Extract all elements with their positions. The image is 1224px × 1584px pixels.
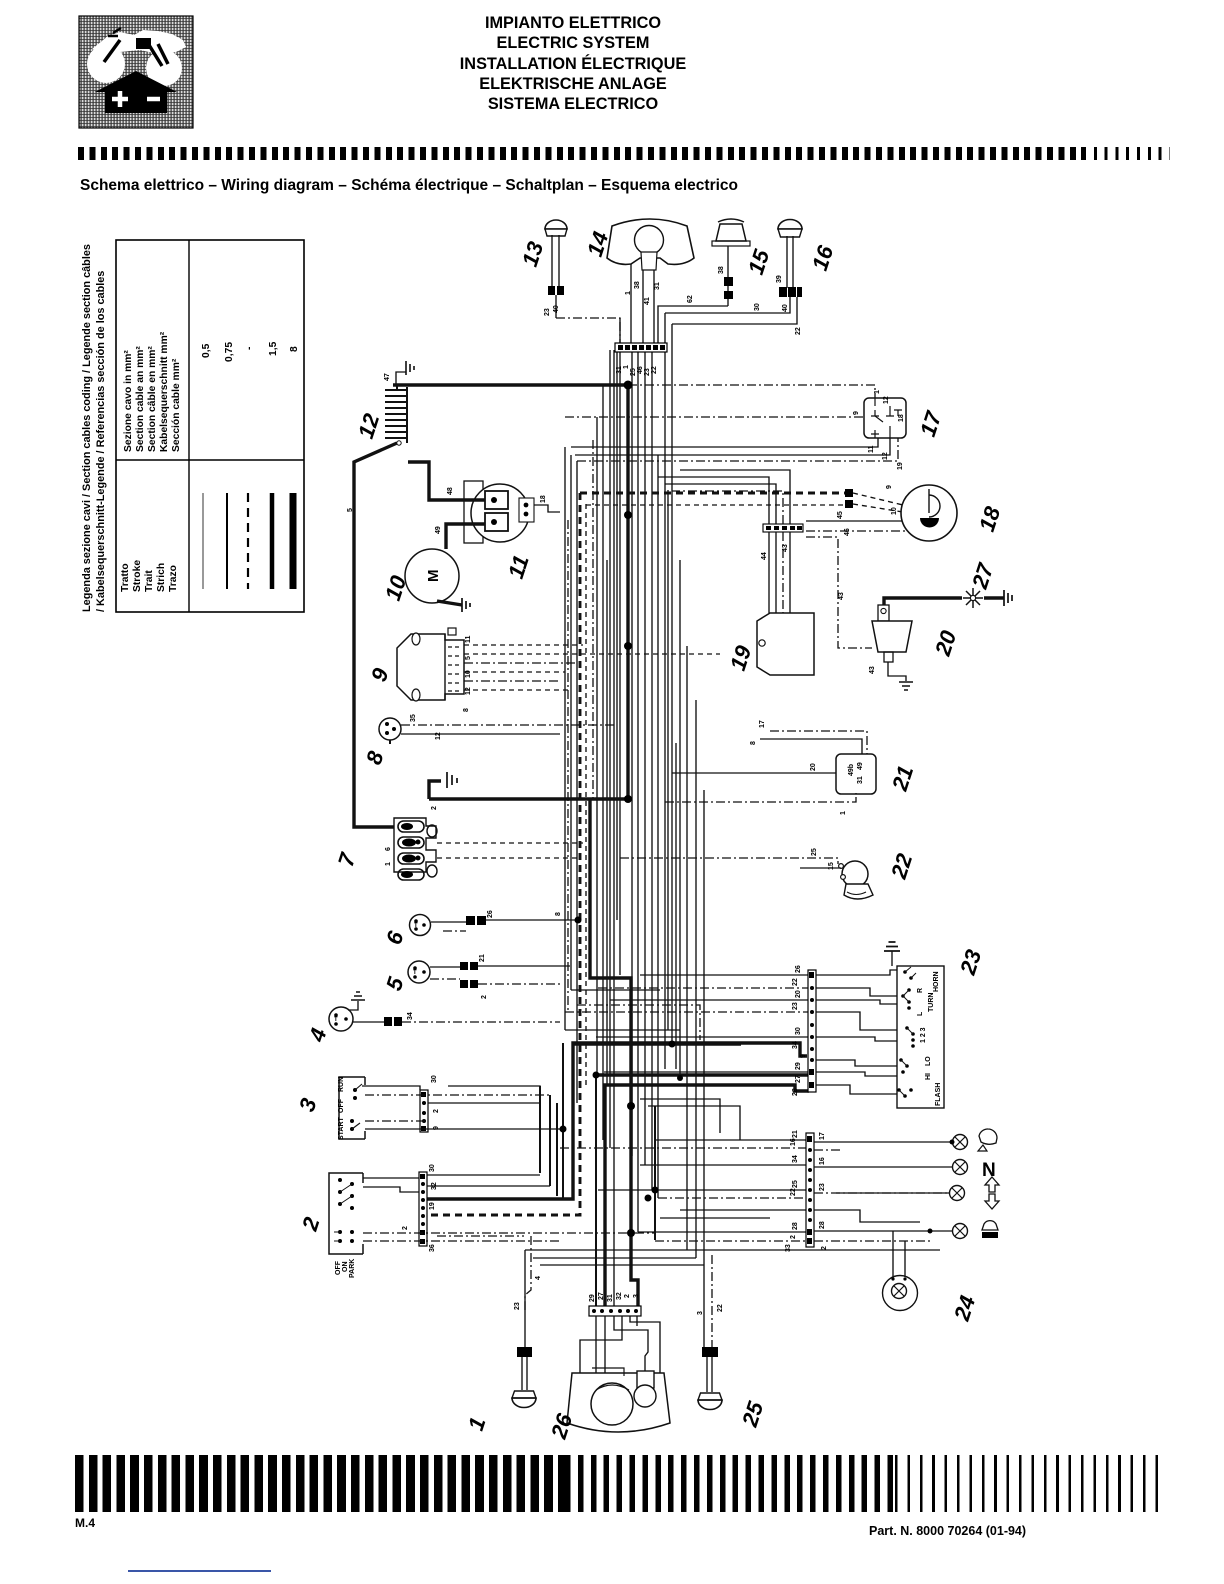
- svg-text:3: 3: [633, 1294, 640, 1298]
- wire 48 (thick): [408, 462, 485, 500]
- svg-text:T: T: [334, 1017, 338, 1023]
- footer part number: [869, 1524, 1026, 1538]
- svg-text:Trait: Trait: [144, 570, 155, 592]
- svg-text:12: 12: [883, 396, 890, 404]
- svg-text:25: 25: [737, 1398, 769, 1431]
- wire: thick branch to connector pin 34: [574, 1042, 741, 1045]
- wire: thick dashed main: [427, 493, 580, 1215]
- rear position lamp 25: [698, 1393, 722, 1410]
- svg-text:M: M: [425, 570, 442, 583]
- wires to handlebar connector: [565, 965, 809, 1096]
- wires relay 17 bottom: [571, 438, 904, 470]
- alternator 12 (coil block): [385, 385, 407, 445]
- svg-text:8: 8: [361, 747, 389, 767]
- svg-text:1 2 3: 1 2 3: [920, 1027, 927, 1043]
- wires pickup 8: [401, 714, 617, 740]
- svg-text:Legenda sezione cavi / Section: Legenda sezione cavi / Section cables co…: [81, 244, 93, 612]
- svg-text:18: 18: [898, 414, 905, 422]
- svg-text:12: 12: [435, 732, 442, 740]
- svg-text:17: 17: [915, 407, 947, 440]
- svg-text:31: 31: [857, 776, 864, 784]
- svg-text:RUN: RUN: [338, 1077, 345, 1092]
- svg-text:20: 20: [795, 990, 802, 998]
- svg-text:Section câble en mm²: Section câble en mm²: [147, 346, 158, 452]
- svg-text:28: 28: [792, 1088, 799, 1096]
- svg-text:2: 2: [402, 1226, 409, 1230]
- svg-text:4: 4: [304, 1025, 332, 1045]
- fuse box 7: [394, 818, 437, 880]
- bottom separator band: [75, 1455, 565, 1512]
- svg-text:22: 22: [795, 327, 802, 335]
- svg-text:21: 21: [887, 763, 919, 795]
- wires sender 6: [431, 910, 578, 931]
- svg-text:27: 27: [795, 1075, 802, 1083]
- svg-text:41: 41: [644, 297, 651, 305]
- CDI unit 9: [397, 628, 464, 701]
- key switch 18: [901, 485, 957, 541]
- svg-text:5: 5: [347, 508, 354, 512]
- svg-text:29: 29: [795, 1062, 802, 1070]
- svg-text:Stroke: Stroke: [132, 560, 143, 592]
- svg-text:25: 25: [630, 368, 637, 376]
- svg-text:11: 11: [868, 445, 875, 453]
- wire to relay 17 coil: [565, 416, 864, 418]
- spark plug 27: [963, 588, 983, 608]
- svg-text:TURN: TURN: [928, 993, 935, 1012]
- svg-text:2: 2: [481, 995, 488, 999]
- svg-text:23: 23: [819, 1183, 826, 1191]
- svg-text:29: 29: [589, 1294, 596, 1302]
- svg-text:Strich: Strich: [156, 563, 167, 592]
- svg-text:11: 11: [503, 552, 534, 581]
- svg-text:34: 34: [792, 1041, 799, 1049]
- nested corner returns: [565, 990, 770, 1218]
- svg-text:26: 26: [795, 965, 802, 973]
- subtitle: [80, 177, 738, 195]
- svg-text:-: -: [244, 346, 255, 350]
- svg-text:8: 8: [750, 741, 757, 745]
- svg-text:49: 49: [435, 526, 442, 534]
- svg-text:43: 43: [838, 592, 845, 600]
- svg-text:24: 24: [949, 1293, 981, 1325]
- svg-text:27: 27: [967, 559, 999, 593]
- svg-text:OFF: OFF: [335, 1260, 342, 1275]
- lamp 16 (stop bulb): [776, 220, 802, 298]
- junction dots: [560, 381, 955, 1238]
- svg-text:1: 1: [625, 291, 632, 295]
- ground above switch 23: [884, 942, 900, 966]
- svg-text:62: 62: [687, 295, 694, 303]
- svg-text:20: 20: [930, 627, 962, 660]
- svg-text:Kabelsequerschnitt mm²: Kabelsequerschnitt mm²: [159, 331, 170, 452]
- horn 22: [839, 861, 873, 899]
- wires to speedometer light: [814, 1210, 920, 1277]
- svg-text:2: 2: [790, 1235, 797, 1239]
- svg-text:48: 48: [447, 487, 454, 495]
- legend table: cable section header (rotated): [123, 331, 182, 452]
- svg-text:10: 10: [891, 507, 898, 515]
- lights switch 2: [329, 1173, 363, 1278]
- svg-text:16: 16: [790, 1138, 797, 1146]
- ground near fuse box: [429, 772, 457, 810]
- svg-text:40: 40: [553, 305, 560, 313]
- svg-text:5: 5: [381, 973, 409, 993]
- svg-text:33: 33: [785, 1244, 792, 1252]
- footer blue rule: [128, 1570, 271, 1572]
- svg-text:16: 16: [819, 1157, 826, 1165]
- svg-text:HORN: HORN: [933, 971, 940, 992]
- svg-text:45: 45: [837, 511, 844, 519]
- svg-text:Trazo: Trazo: [168, 565, 179, 592]
- svg-text:12: 12: [353, 410, 385, 442]
- svg-text:31: 31: [607, 1294, 614, 1302]
- svg-text:18: 18: [974, 503, 1006, 535]
- svg-text:PARK: PARK: [349, 1259, 356, 1278]
- svg-text:FLASH: FLASH: [935, 1083, 942, 1106]
- lamp 15 (tail bulb): [712, 219, 750, 306]
- svg-text:ON: ON: [342, 1262, 349, 1273]
- svg-text:23: 23: [514, 1302, 521, 1310]
- svg-text:30: 30: [429, 1164, 436, 1172]
- connector strip of ignition unit: [763, 524, 803, 532]
- headlight connector strip: [615, 343, 667, 376]
- svg-text:7: 7: [333, 849, 361, 870]
- svg-text:Section cable an mm²: Section cable an mm²: [135, 346, 146, 452]
- wires connector to warning lamps: [814, 1132, 953, 1250]
- svg-text:1: 1: [385, 862, 392, 866]
- svg-text:3: 3: [294, 1095, 322, 1114]
- svg-text:Sección cable mm²: Sección cable mm²: [171, 358, 182, 452]
- engine stop switch 3: [338, 1077, 365, 1140]
- legend table frame: [116, 240, 304, 612]
- svg-text:21: 21: [792, 1130, 799, 1138]
- svg-text:9: 9: [886, 485, 893, 489]
- wire: left thick run from generator to fuses: [354, 443, 397, 827]
- svg-text:OFF: OFF: [338, 1098, 345, 1113]
- svg-text:4: 4: [535, 1276, 542, 1280]
- wire: thick branch 27: [605, 1085, 809, 1306]
- wire: battery positive bus (thick): [393, 385, 628, 799]
- svg-text:28: 28: [819, 1221, 826, 1229]
- svg-text:N: N: [982, 1160, 996, 1181]
- svg-text:47: 47: [384, 373, 391, 381]
- wires ignition unit up: [658, 470, 790, 560]
- starter relay 17: [864, 396, 906, 438]
- svg-text:40: 40: [782, 304, 789, 312]
- svg-text:8: 8: [555, 912, 562, 916]
- svg-text:22: 22: [717, 1304, 724, 1312]
- svg-text:25: 25: [811, 848, 818, 856]
- warning lamp: neutral: [953, 1160, 996, 1182]
- wire to relay 17 top: [628, 385, 875, 398]
- wire: thick feed to switch 2: [427, 1043, 807, 1199]
- top separator band: [78, 147, 1083, 160]
- wire: thin dashed companion: [585, 504, 587, 1085]
- svg-text:R: R: [917, 988, 924, 993]
- warning lamp: low beam: [953, 1221, 999, 1239]
- tail lamp connector: [589, 1292, 641, 1316]
- wire trunk: lower medium verticals: [540, 1043, 655, 1306]
- svg-text:Tratto: Tratto: [120, 563, 131, 592]
- front position lamp 1: [512, 1391, 536, 1408]
- svg-text:38: 38: [634, 281, 641, 289]
- svg-text:46: 46: [637, 366, 644, 374]
- svg-text:38: 38: [718, 266, 725, 274]
- wire 49 (thick): [435, 524, 485, 549]
- svg-text:17: 17: [759, 720, 766, 728]
- wire to front position lamp 1: [514, 1236, 542, 1390]
- svg-text:23: 23: [955, 947, 987, 979]
- svg-text:44: 44: [761, 552, 768, 560]
- svg-text:17: 17: [819, 1132, 826, 1140]
- svg-text:32: 32: [616, 1292, 623, 1300]
- wires fuse box 7: [385, 843, 583, 866]
- pickup 8: [379, 718, 401, 744]
- starter motor 10: [405, 549, 470, 612]
- wire to rear position lamp 25: [697, 1255, 724, 1392]
- warning lamp: high beam: [953, 1129, 998, 1151]
- wire 16 stop: [672, 297, 797, 324]
- svg-text:L: L: [917, 1011, 924, 1016]
- legend table: section values (rotated): [201, 341, 300, 362]
- svg-text:3: 3: [697, 1311, 704, 1315]
- svg-text:19: 19: [429, 1202, 436, 1210]
- wire coil secondary to ground: [869, 662, 913, 690]
- svg-text:49: 49: [857, 762, 864, 770]
- svg-text:34: 34: [407, 1012, 414, 1020]
- wires 45 46 to key switch: [806, 511, 908, 536]
- ground at spark plug: [1004, 590, 1012, 606]
- svg-text:31: 31: [654, 282, 661, 290]
- wire 13 to connector: [556, 318, 620, 343]
- svg-text:11: 11: [465, 635, 472, 643]
- wires sender 4: [353, 1012, 560, 1026]
- ground near generator (47): [384, 361, 414, 385]
- handlebar connector strip: [808, 970, 816, 1092]
- wire 15: [658, 306, 728, 343]
- bottom harness horizontals: [437, 1236, 940, 1265]
- svg-text:6: 6: [385, 847, 392, 851]
- svg-text:START: START: [338, 1116, 345, 1140]
- svg-text:28: 28: [792, 1222, 799, 1230]
- svg-text:T: T: [413, 970, 417, 976]
- wire trunk: auxiliary dash-dot verticals: [568, 440, 676, 1085]
- wires connector to switch 23: [816, 970, 897, 1094]
- svg-text:27: 27: [598, 1292, 605, 1300]
- svg-text:1: 1: [874, 390, 881, 394]
- svg-text:22: 22: [886, 850, 918, 883]
- temperature sender 6: [410, 915, 431, 936]
- svg-text:9: 9: [800, 1054, 807, 1058]
- svg-text:LO: LO: [925, 1056, 932, 1066]
- svg-text:Sezione cavo in mm²: Sezione cavo in mm²: [123, 350, 134, 452]
- svg-text:31: 31: [616, 366, 623, 374]
- title block: [300, 13, 846, 114]
- svg-text:23: 23: [644, 368, 651, 376]
- svg-text:1,5: 1,5: [268, 341, 279, 356]
- svg-text:8: 8: [463, 708, 470, 712]
- footer page number: [75, 1516, 95, 1530]
- svg-text:HI: HI: [925, 1073, 932, 1080]
- svg-text:34: 34: [792, 1155, 799, 1163]
- svg-text:20: 20: [810, 763, 817, 771]
- svg-text:0,5: 0,5: [201, 343, 212, 358]
- headlight 14: [607, 219, 694, 270]
- wire spark to ground (thick): [984, 596, 1004, 599]
- wire 16 low: [665, 297, 790, 313]
- wires sender 5: [430, 954, 570, 999]
- legend table: line samples: [203, 493, 293, 589]
- svg-text:43: 43: [869, 666, 876, 674]
- ground near sender 4: [348, 992, 365, 1010]
- svg-text:22: 22: [651, 366, 658, 374]
- speedometer light 24: [883, 1276, 918, 1311]
- svg-text:30: 30: [795, 1027, 802, 1035]
- regulator 11: [464, 481, 560, 543]
- svg-text:21: 21: [479, 954, 486, 962]
- svg-text:2: 2: [624, 1294, 631, 1298]
- svg-text:18: 18: [540, 495, 547, 503]
- svg-text:25: 25: [792, 1180, 799, 1188]
- svg-text:35: 35: [410, 714, 417, 722]
- wires headlight 14: [625, 264, 661, 343]
- svg-text:23: 23: [544, 308, 551, 316]
- wires horn 22: [620, 848, 841, 870]
- svg-text:13: 13: [517, 239, 548, 270]
- svg-text:49b: 49b: [848, 764, 855, 776]
- svg-text:8: 8: [289, 346, 300, 352]
- svg-text:39: 39: [776, 275, 783, 283]
- svg-text:/ Kabelsequerschnitt-Legende /: / Kabelsequerschnitt-Legende / Referenci…: [95, 271, 107, 612]
- ignition coil 20: [872, 605, 912, 662]
- svg-text:22: 22: [792, 978, 799, 986]
- flasher unit 21: [836, 754, 876, 794]
- svg-text:36: 36: [429, 1244, 436, 1252]
- connector strip of switch 3: [420, 1090, 428, 1132]
- ignition electronic unit 19: [757, 532, 814, 675]
- svg-text:1: 1: [623, 365, 630, 369]
- svg-text:12: 12: [465, 687, 472, 695]
- neutral sender 5: [408, 961, 430, 983]
- wires connector to tail lamp 26: [580, 1316, 660, 1373]
- svg-text:46: 46: [844, 528, 851, 536]
- logo: textured box with motorcycle and battery-house icon: [79, 16, 193, 128]
- svg-text:23: 23: [792, 1002, 799, 1010]
- wire coil HT lead (thick): [884, 598, 962, 605]
- tail lamp 26: [567, 1368, 670, 1432]
- svg-text:6: 6: [381, 927, 409, 947]
- legend: rotated caption: [81, 244, 107, 612]
- svg-text:30: 30: [431, 1075, 438, 1083]
- svg-text:2: 2: [433, 1109, 440, 1113]
- svg-text:9: 9: [433, 1126, 440, 1130]
- wire CDI to coil: [806, 537, 872, 648]
- wires switch 3: [362, 1075, 563, 1130]
- wire: thick branch 29: [596, 1073, 809, 1076]
- svg-text:9: 9: [853, 411, 860, 415]
- instrument connector strip: [806, 1133, 814, 1247]
- svg-text:T: T: [414, 923, 418, 929]
- svg-text:2: 2: [297, 1213, 325, 1234]
- lamp 13 (city light bulb): [544, 220, 567, 318]
- svg-text:2: 2: [431, 806, 438, 810]
- svg-text:12: 12: [882, 452, 889, 460]
- wires CDI 9: [463, 635, 720, 712]
- svg-text:30: 30: [754, 303, 761, 311]
- wires switch 2: [363, 1164, 655, 1252]
- connector strip of switch 2: [419, 1172, 427, 1246]
- svg-text:32: 32: [431, 1182, 438, 1190]
- svg-text:19: 19: [897, 462, 904, 470]
- svg-text:0,75: 0,75: [224, 342, 235, 362]
- svg-text:10: 10: [465, 670, 472, 678]
- svg-text:1: 1: [840, 811, 847, 815]
- svg-text:15: 15: [743, 246, 775, 278]
- wires to instrument connector: [560, 1130, 806, 1252]
- warning lamp: turn: [950, 1177, 1000, 1209]
- handlebar switch unit 23: [897, 966, 944, 1108]
- svg-text:22: 22: [790, 1188, 797, 1196]
- svg-text:19: 19: [725, 642, 757, 674]
- wire trunk: central harness verticals: [565, 313, 704, 1306]
- svg-text:9: 9: [366, 664, 394, 684]
- svg-text:5: 5: [465, 656, 472, 660]
- oil sender 4: [329, 1007, 353, 1031]
- wire: thick bus lower section: [429, 797, 628, 800]
- wire dashed pair to key switch 18: [580, 485, 903, 515]
- svg-text:16: 16: [807, 242, 839, 274]
- legend table: stroke words (rotated): [120, 560, 179, 592]
- svg-text:1: 1: [463, 1414, 491, 1433]
- svg-text:26: 26: [487, 910, 494, 918]
- svg-text:15: 15: [828, 862, 835, 870]
- wires flasher 21: [665, 720, 867, 815]
